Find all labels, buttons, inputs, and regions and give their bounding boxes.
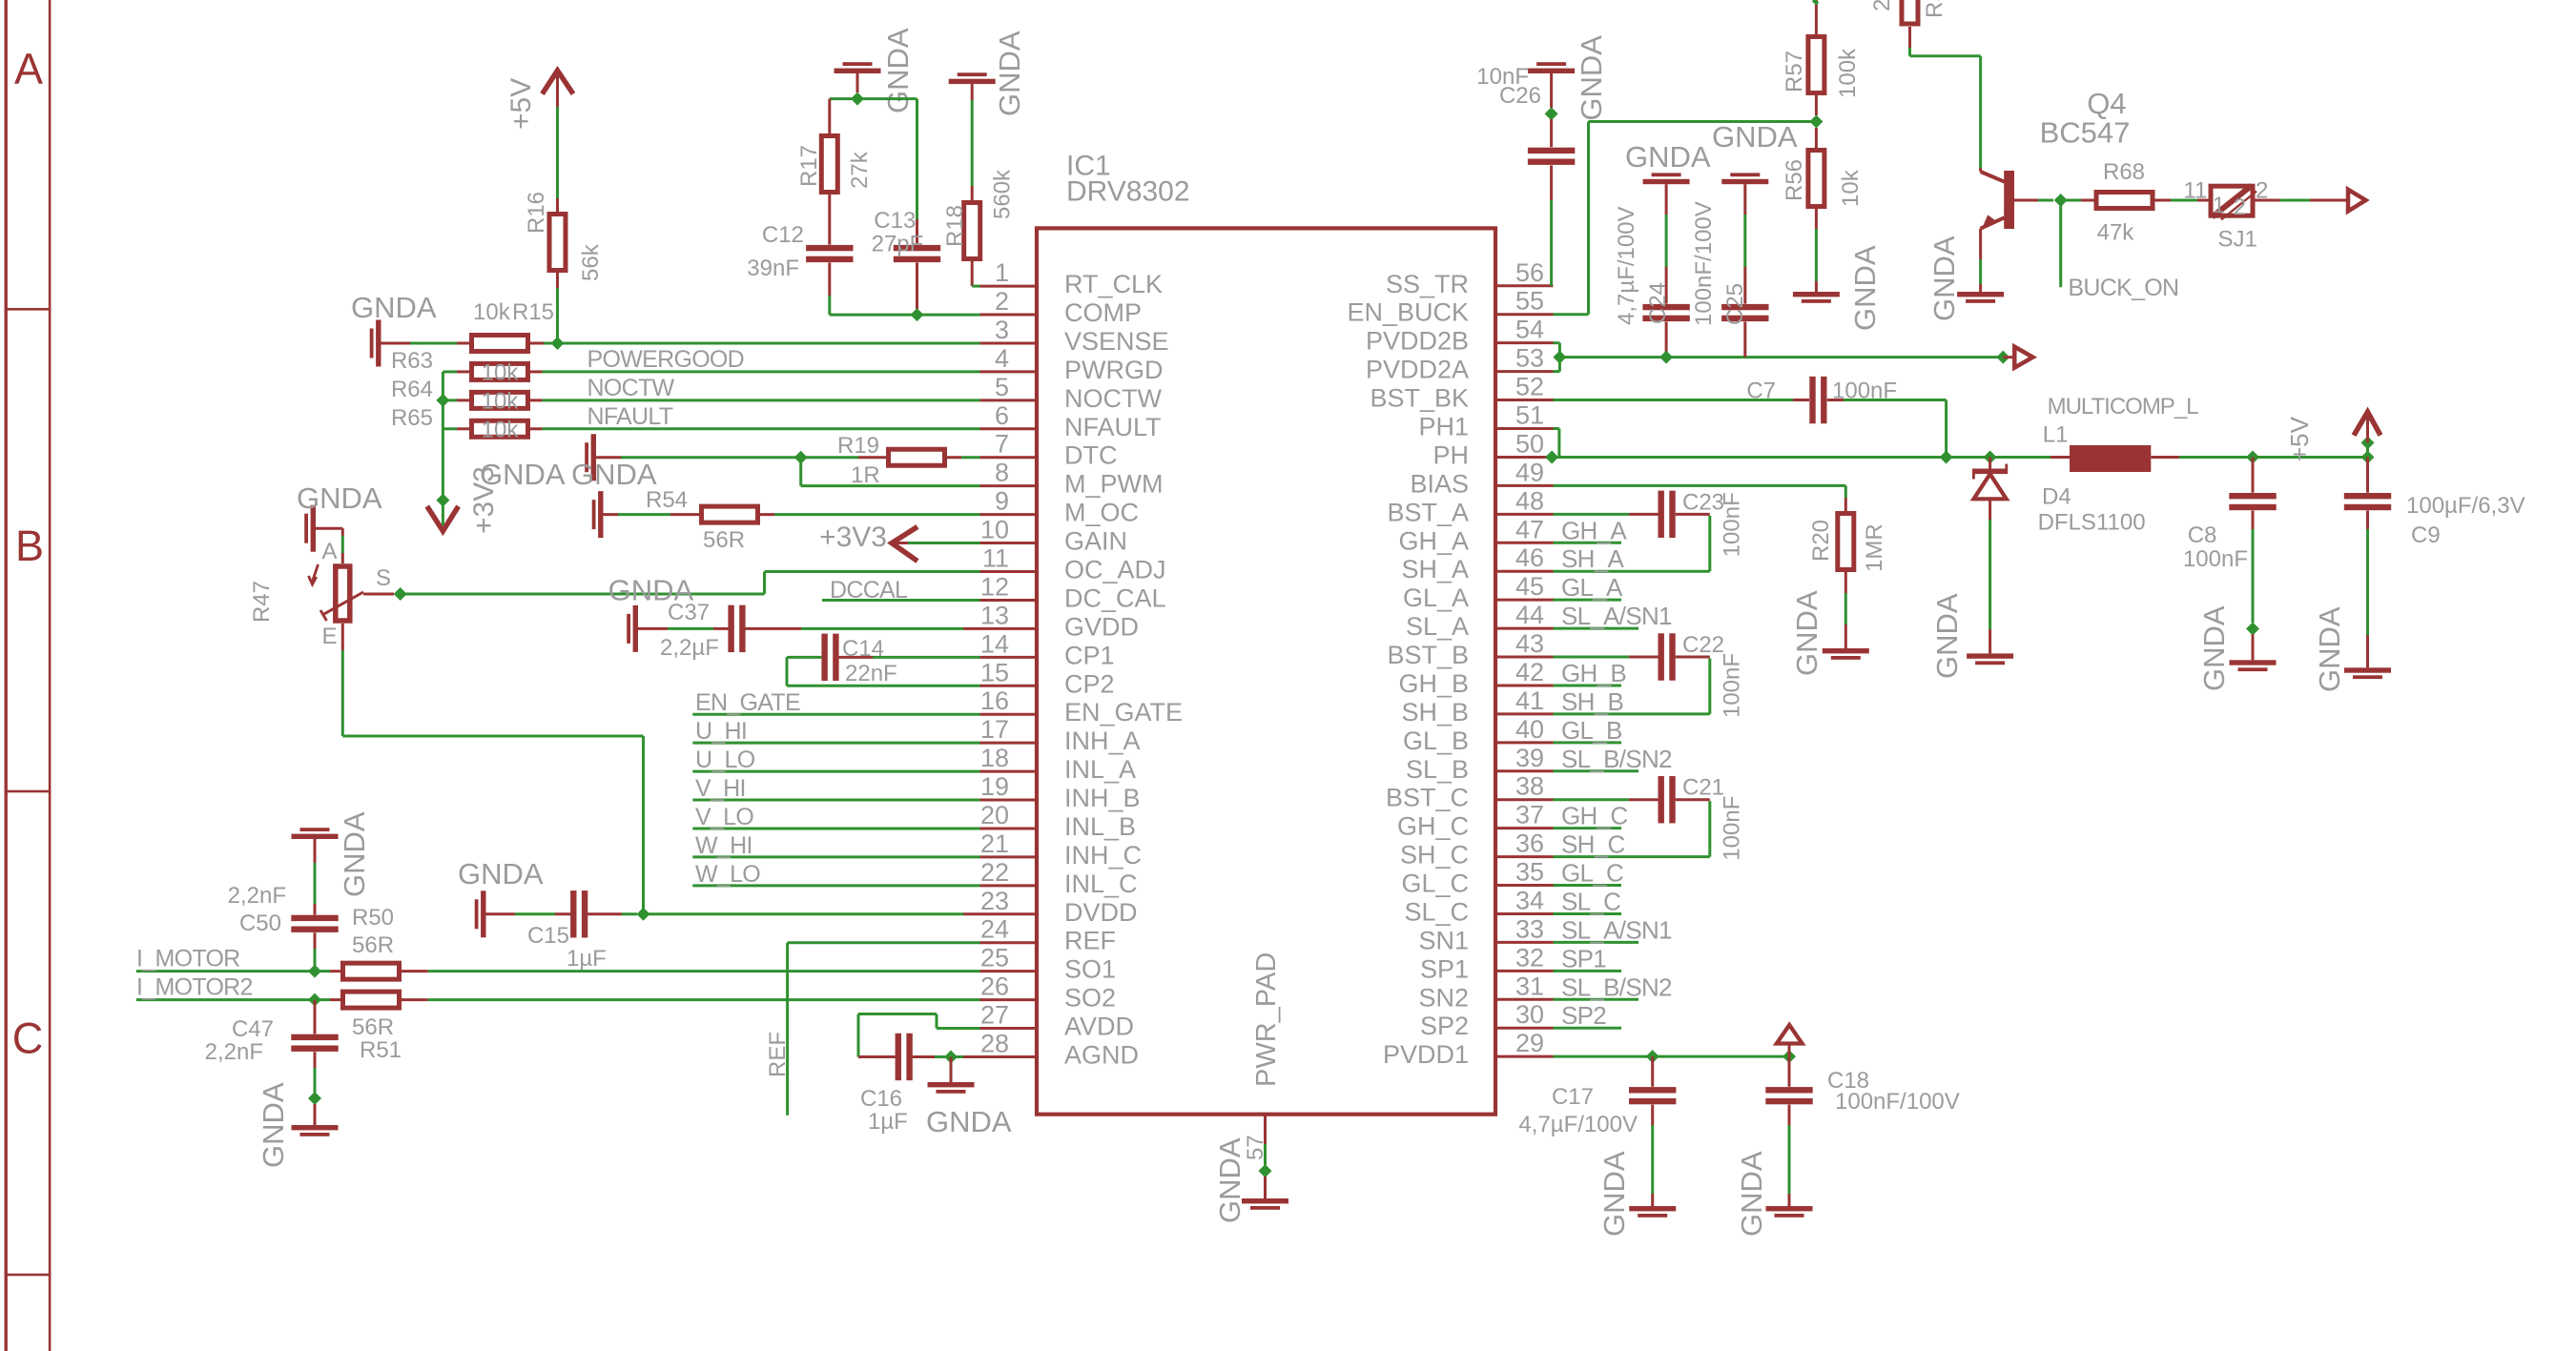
wire bbox=[363, 593, 394, 596]
wire bbox=[828, 296, 831, 315]
jumper SJ1 bbox=[2211, 186, 2253, 215]
svg-text:GH_C: GH_C bbox=[1397, 812, 1469, 841]
wire bbox=[1554, 513, 1629, 516]
resistor R16 56k bbox=[549, 215, 566, 271]
svg-text:GNDA: GNDA bbox=[1735, 1151, 1768, 1237]
svg-text:56R: 56R bbox=[352, 932, 394, 958]
wire bbox=[692, 855, 979, 858]
wire bbox=[1554, 370, 1560, 373]
wire bbox=[1554, 970, 1622, 972]
wire bbox=[642, 736, 645, 914]
svg-text:22nF: 22nF bbox=[845, 661, 897, 686]
svg-text:PWR_PAD: PWR_PAD bbox=[1251, 952, 1282, 1087]
svg-text:100nF: 100nF bbox=[1720, 653, 1745, 718]
wire bbox=[1557, 429, 1560, 458]
wire bbox=[972, 285, 979, 288]
wire bbox=[543, 370, 980, 373]
wire bbox=[1979, 168, 1982, 172]
wire bbox=[1989, 499, 1991, 520]
wire bbox=[2081, 199, 2095, 202]
wire bbox=[596, 456, 621, 459]
wire bbox=[1550, 73, 1553, 108]
wire bbox=[1910, 54, 1981, 57]
svg-text:1µF: 1µF bbox=[868, 1109, 908, 1135]
wire bbox=[1651, 1105, 1654, 1125]
svg-text:2: 2 bbox=[995, 287, 1009, 316]
wire bbox=[1554, 941, 1639, 944]
svg-text:43: 43 bbox=[1515, 629, 1544, 658]
svg-text:SP1: SP1 bbox=[1420, 954, 1469, 983]
wire bbox=[330, 970, 342, 972]
svg-text:27pF: 27pF bbox=[872, 232, 924, 257]
wire bbox=[692, 799, 979, 802]
svg-text:2: 2 bbox=[1869, 0, 1895, 11]
svg-text:NFAULT: NFAULT bbox=[587, 403, 673, 430]
wire bbox=[980, 484, 1038, 487]
svg-text:SL_C: SL_C bbox=[1404, 897, 1469, 926]
svg-text:POWERGOOD: POWERGOOD bbox=[587, 346, 745, 373]
wire bbox=[908, 542, 980, 544]
ground GNDA above R17/C13 bbox=[835, 69, 881, 73]
svg-text:PWRGD: PWRGD bbox=[1064, 356, 1164, 384]
wire bbox=[1554, 484, 1846, 487]
wire bbox=[971, 186, 974, 202]
svg-text:R15: R15 bbox=[512, 299, 554, 325]
svg-text:NOCTW: NOCTW bbox=[587, 375, 675, 401]
svg-text:C: C bbox=[12, 1014, 44, 1063]
svg-text:100k: 100k bbox=[1835, 48, 1861, 98]
arrow PVDD2 off-page bbox=[2014, 347, 2032, 368]
svg-text:GNDA: GNDA bbox=[338, 811, 371, 897]
wire bbox=[2310, 199, 2348, 202]
svg-text:BST_C: BST_C bbox=[1386, 784, 1469, 812]
wire bbox=[1554, 712, 1710, 715]
wire bbox=[1559, 356, 2003, 358]
wire bbox=[1665, 184, 1668, 215]
wire bbox=[1495, 970, 1554, 972]
junction bbox=[2361, 436, 2375, 449]
svg-text:C23: C23 bbox=[1682, 489, 1724, 515]
wire bbox=[1844, 399, 1947, 401]
svg-text:56R: 56R bbox=[352, 1014, 394, 1040]
junction bbox=[1809, 115, 1823, 129]
svg-text:C22: C22 bbox=[1682, 632, 1724, 658]
svg-text:SL_A: SL_A bbox=[1406, 612, 1469, 641]
wire bbox=[971, 84, 974, 100]
junction bbox=[1545, 107, 1558, 120]
wire bbox=[774, 513, 980, 516]
wire bbox=[786, 943, 789, 1116]
svg-text:GNDA: GNDA bbox=[1625, 140, 1711, 174]
ground GNDA left of R54 bbox=[598, 491, 603, 538]
svg-text:GVDD: GVDD bbox=[1064, 612, 1139, 641]
wire bbox=[1264, 1177, 1267, 1198]
wire bbox=[858, 1013, 937, 1015]
wire bbox=[858, 1055, 896, 1058]
svg-text:SJ1: SJ1 bbox=[2218, 227, 2257, 253]
ground GNDA above C50 bbox=[292, 834, 339, 839]
svg-text:27k: 27k bbox=[847, 151, 873, 189]
wire bbox=[314, 839, 317, 863]
svg-text:W_HI: W_HI bbox=[695, 832, 752, 859]
svg-text:1: 1 bbox=[2213, 193, 2225, 218]
wire bbox=[2050, 456, 2070, 459]
wire bbox=[1708, 801, 1711, 856]
svg-text:55: 55 bbox=[1515, 287, 1544, 316]
wire bbox=[1495, 513, 1554, 516]
wire bbox=[1554, 542, 1622, 544]
wire bbox=[1676, 656, 1710, 659]
svg-text:SL_C: SL_C bbox=[1561, 887, 1620, 915]
svg-text:39: 39 bbox=[1515, 744, 1544, 772]
wire bbox=[2366, 442, 2369, 457]
ground GNDA at PWR_PAD bbox=[1242, 1198, 1288, 1203]
junction bbox=[308, 1092, 321, 1105]
wire bbox=[963, 627, 980, 630]
wire bbox=[1554, 798, 1629, 801]
svg-text:R19: R19 bbox=[837, 433, 879, 459]
svg-text:29: 29 bbox=[1515, 1029, 1544, 1057]
svg-text:48: 48 bbox=[1515, 486, 1544, 515]
svg-text:SO1: SO1 bbox=[1064, 955, 1116, 984]
svg-text:GL_A: GL_A bbox=[1403, 583, 1469, 612]
wire bbox=[400, 998, 428, 1001]
svg-text:1µF: 1µF bbox=[567, 946, 607, 972]
wire bbox=[763, 572, 766, 595]
junction bbox=[1940, 450, 1953, 463]
wire bbox=[758, 513, 774, 516]
svg-text:AVDD: AVDD bbox=[1064, 1013, 1134, 1041]
wire bbox=[2179, 456, 2368, 459]
ground GNDA below Q4 emitter bbox=[1957, 292, 2004, 297]
wire bbox=[1651, 1125, 1654, 1194]
svg-text:6: 6 bbox=[995, 401, 1009, 430]
svg-text:18: 18 bbox=[980, 744, 1009, 772]
wire bbox=[2151, 456, 2179, 459]
wire bbox=[2280, 199, 2310, 202]
capacitor C12 39nF bbox=[806, 245, 853, 251]
svg-text:56: 56 bbox=[1515, 258, 1544, 287]
svg-text:SP2: SP2 bbox=[1561, 1001, 1606, 1030]
svg-text:GH_B: GH_B bbox=[1561, 659, 1626, 687]
wire bbox=[745, 627, 801, 630]
wire bbox=[1264, 1144, 1267, 1165]
wire bbox=[1495, 684, 1554, 686]
wire bbox=[1629, 656, 1659, 659]
wire bbox=[1495, 599, 1554, 602]
wire bbox=[963, 1055, 980, 1058]
wire bbox=[828, 193, 831, 245]
wire bbox=[316, 527, 342, 530]
svg-text:GNDA: GNDA bbox=[1927, 235, 1961, 321]
wire bbox=[2366, 511, 2369, 530]
wire bbox=[2197, 199, 2211, 202]
wire bbox=[980, 570, 1038, 573]
wire bbox=[1989, 520, 1991, 629]
svg-text:R50: R50 bbox=[352, 905, 394, 931]
svg-text:DFLS1100: DFLS1100 bbox=[2038, 510, 2146, 536]
wire bbox=[604, 513, 619, 516]
junction bbox=[436, 494, 449, 507]
svg-text:DVDD: DVDD bbox=[1064, 898, 1138, 927]
wire bbox=[381, 341, 411, 344]
wire bbox=[1554, 855, 1710, 858]
svg-text:GH_A: GH_A bbox=[1398, 526, 1469, 555]
wire bbox=[530, 370, 543, 373]
wire bbox=[913, 1055, 935, 1058]
wire bbox=[556, 71, 559, 107]
wire bbox=[1554, 884, 1622, 887]
svg-text:I_MOTOR2: I_MOTOR2 bbox=[136, 973, 253, 1000]
wire bbox=[692, 827, 979, 829]
ground GNDA below C9 bbox=[2344, 667, 2391, 672]
svg-text:L1: L1 bbox=[2043, 422, 2069, 448]
svg-text:SH_C: SH_C bbox=[1561, 830, 1625, 859]
wire bbox=[622, 912, 637, 915]
wire bbox=[1815, 207, 1818, 229]
wire bbox=[1495, 1055, 1554, 1058]
svg-text:EN_GATE: EN_GATE bbox=[695, 689, 800, 716]
wire bbox=[1743, 184, 1746, 215]
svg-text:100nF/100V: 100nF/100V bbox=[1835, 1089, 1960, 1115]
wire bbox=[314, 1000, 317, 1034]
wire bbox=[314, 1068, 317, 1093]
junction bbox=[551, 337, 565, 350]
wire bbox=[2014, 199, 2038, 202]
wire bbox=[1788, 1125, 1791, 1194]
wire bbox=[980, 656, 1038, 659]
wire bbox=[670, 513, 701, 516]
svg-text:10: 10 bbox=[980, 516, 1009, 544]
wire bbox=[1676, 513, 1710, 516]
wire bbox=[2366, 411, 2369, 442]
capacitor C14 22nF bbox=[821, 634, 827, 681]
svg-text:SH_B: SH_B bbox=[1561, 687, 1623, 716]
svg-text:SL_B/SN2: SL_B/SN2 bbox=[1561, 972, 1672, 1001]
junction bbox=[308, 965, 321, 978]
wire bbox=[1989, 629, 1991, 653]
ground GNDA at R47 A pin bbox=[311, 505, 316, 552]
svg-text:13: 13 bbox=[980, 601, 1009, 629]
wire bbox=[828, 119, 831, 133]
junction bbox=[851, 92, 864, 106]
wire bbox=[1495, 313, 1554, 316]
capacitor C15 1uF bbox=[570, 890, 576, 937]
resistor R15 10k bbox=[472, 335, 528, 351]
wire bbox=[892, 542, 908, 544]
svg-text:AGND: AGND bbox=[1064, 1040, 1139, 1069]
svg-text:47k: 47k bbox=[2097, 220, 2135, 246]
wire bbox=[1844, 570, 1847, 593]
svg-text:SN1: SN1 bbox=[1418, 926, 1469, 954]
wire bbox=[980, 285, 1038, 288]
svg-text:REF: REF bbox=[765, 1032, 791, 1077]
svg-text:SS_TR: SS_TR bbox=[1386, 270, 1469, 298]
wire bbox=[980, 970, 1038, 972]
wire bbox=[556, 271, 559, 288]
wire bbox=[1844, 593, 1847, 624]
wire bbox=[556, 288, 559, 342]
svg-text:R63: R63 bbox=[391, 348, 433, 374]
wire bbox=[971, 259, 974, 286]
wire bbox=[457, 370, 469, 373]
svg-text:1MR: 1MR bbox=[1862, 523, 1887, 572]
wire bbox=[1629, 798, 1659, 801]
svg-text:R16: R16 bbox=[524, 192, 549, 234]
svg-text:14: 14 bbox=[980, 629, 1009, 658]
svg-text:1R: 1R bbox=[851, 462, 880, 488]
wire bbox=[980, 884, 1038, 887]
svg-text:GNDA: GNDA bbox=[1213, 1137, 1247, 1223]
wire bbox=[314, 1104, 317, 1125]
wire bbox=[556, 198, 559, 214]
wire bbox=[2366, 457, 2369, 492]
wire bbox=[1908, 27, 1911, 48]
svg-text:+5V: +5V bbox=[2285, 416, 2314, 461]
wire bbox=[621, 456, 801, 459]
wire bbox=[555, 912, 570, 915]
ground GNDA below C17 bbox=[1629, 1206, 1676, 1211]
svg-text:PH1: PH1 bbox=[1418, 413, 1469, 441]
wire bbox=[1813, 0, 1818, 4]
svg-text:R54: R54 bbox=[646, 487, 688, 513]
svg-text:GL_C: GL_C bbox=[1401, 870, 1469, 898]
svg-text:EN_BUCK: EN_BUCK bbox=[1347, 298, 1469, 327]
svg-text:BIAS: BIAS bbox=[1410, 469, 1469, 498]
svg-text:44: 44 bbox=[1515, 601, 1544, 629]
svg-text:35: 35 bbox=[1515, 858, 1544, 887]
svg-text:GNDA: GNDA bbox=[993, 31, 1026, 116]
wire bbox=[980, 513, 1038, 516]
svg-text:C9: C9 bbox=[2411, 522, 2441, 548]
svg-text:W_LO: W_LO bbox=[695, 861, 760, 888]
svg-text:100nF: 100nF bbox=[1720, 492, 1745, 557]
svg-text:PH: PH bbox=[1432, 440, 1469, 469]
wire bbox=[1495, 998, 1554, 1001]
svg-text:C12: C12 bbox=[762, 222, 804, 248]
svg-text:GH_B: GH_B bbox=[1398, 669, 1469, 698]
ground GNDA left of R15 bbox=[376, 319, 381, 366]
svg-text:DTC: DTC bbox=[1064, 441, 1118, 470]
svg-text:10k: 10k bbox=[482, 388, 520, 414]
svg-text:GL_B: GL_B bbox=[1403, 727, 1469, 755]
svg-text:SL_A/SN1: SL_A/SN1 bbox=[1561, 602, 1672, 630]
svg-text:A: A bbox=[14, 44, 43, 92]
wire bbox=[457, 399, 469, 401]
svg-text:BUCK_ON: BUCK_ON bbox=[2068, 275, 2178, 301]
svg-text:24: 24 bbox=[980, 915, 1009, 944]
wire bbox=[314, 863, 317, 904]
svg-text:D4: D4 bbox=[2042, 484, 2071, 510]
wire bbox=[1651, 1194, 1654, 1206]
svg-text:10k: 10k bbox=[482, 417, 520, 442]
svg-text:R5: R5 bbox=[1922, 0, 1947, 18]
wire bbox=[2171, 199, 2197, 202]
svg-text:SO2: SO2 bbox=[1064, 984, 1116, 1013]
wire bbox=[937, 1027, 980, 1030]
svg-text:+3V3: +3V3 bbox=[819, 522, 887, 553]
wire bbox=[1554, 427, 1559, 430]
junction bbox=[394, 587, 407, 601]
wire bbox=[1815, 128, 1818, 150]
svg-text:12: 12 bbox=[980, 572, 1009, 601]
wire bbox=[692, 884, 979, 887]
wire bbox=[1554, 684, 1622, 686]
wire bbox=[980, 456, 1038, 459]
svg-text:R20: R20 bbox=[1808, 520, 1834, 562]
wire bbox=[1264, 1115, 1267, 1144]
svg-text:4: 4 bbox=[995, 344, 1009, 373]
svg-text:4,7µF/100V: 4,7µF/100V bbox=[1518, 1112, 1638, 1137]
svg-text:23: 23 bbox=[980, 887, 1009, 915]
svg-text:GNDA: GNDA bbox=[1848, 245, 1882, 331]
svg-text:EN_GATE: EN_GATE bbox=[1064, 698, 1183, 727]
wire bbox=[1945, 400, 1947, 458]
wire bbox=[644, 912, 964, 915]
wire bbox=[980, 399, 1038, 401]
ground GNDA left of C37 bbox=[633, 605, 638, 652]
svg-text:V_LO: V_LO bbox=[695, 804, 753, 830]
svg-text:56k: 56k bbox=[578, 243, 604, 281]
resistor R18 560k bbox=[949, 79, 996, 84]
junction bbox=[944, 1050, 958, 1063]
wire bbox=[787, 685, 980, 687]
svg-text:GL_B: GL_B bbox=[1561, 716, 1622, 745]
wire bbox=[916, 219, 918, 245]
wire bbox=[1743, 321, 1746, 357]
svg-text:33: 33 bbox=[1515, 914, 1544, 943]
svg-text:CP1: CP1 bbox=[1064, 641, 1115, 669]
wire bbox=[1554, 769, 1639, 772]
svg-text:37: 37 bbox=[1515, 801, 1544, 829]
wire bbox=[1793, 399, 1809, 401]
wire bbox=[2366, 529, 2369, 635]
svg-text:GNDA: GNDA bbox=[1790, 590, 1824, 676]
svg-text:SL_B/SN2: SL_B/SN2 bbox=[1561, 745, 1672, 773]
svg-text:50: 50 bbox=[1515, 429, 1544, 458]
junction bbox=[2246, 623, 2259, 636]
svg-text:GNDA: GNDA bbox=[1575, 35, 1608, 121]
wire bbox=[980, 1027, 1038, 1030]
wire bbox=[1979, 56, 1982, 168]
junction bbox=[2361, 450, 2375, 463]
wire bbox=[1495, 370, 1554, 373]
svg-text:C8: C8 bbox=[2188, 522, 2217, 548]
svg-text:C21: C21 bbox=[1682, 775, 1724, 801]
svg-text:SH_A: SH_A bbox=[1561, 544, 1624, 573]
svg-text:25: 25 bbox=[980, 944, 1009, 972]
svg-text:2,2nF: 2,2nF bbox=[205, 1039, 263, 1065]
junction bbox=[1553, 351, 1566, 364]
svg-text:10k: 10k bbox=[1838, 169, 1864, 207]
svg-text:INH_C: INH_C bbox=[1064, 841, 1142, 870]
wire bbox=[980, 998, 1038, 1001]
junction bbox=[637, 908, 650, 921]
wire bbox=[1554, 741, 1622, 744]
capacitor C37 2,2uF bbox=[728, 605, 733, 652]
wire bbox=[341, 553, 344, 563]
svg-text:OC_ADJ: OC_ADJ bbox=[1064, 556, 1166, 584]
svg-text:47: 47 bbox=[1515, 515, 1544, 543]
svg-text:V_HI: V_HI bbox=[695, 775, 746, 802]
wire bbox=[314, 932, 317, 949]
wire bbox=[1708, 659, 1711, 714]
svg-text:17: 17 bbox=[980, 715, 1009, 744]
wire bbox=[1788, 1105, 1791, 1125]
wire bbox=[786, 657, 789, 686]
svg-text:PVDD2B: PVDD2B bbox=[1366, 327, 1469, 356]
wire bbox=[980, 770, 1038, 773]
